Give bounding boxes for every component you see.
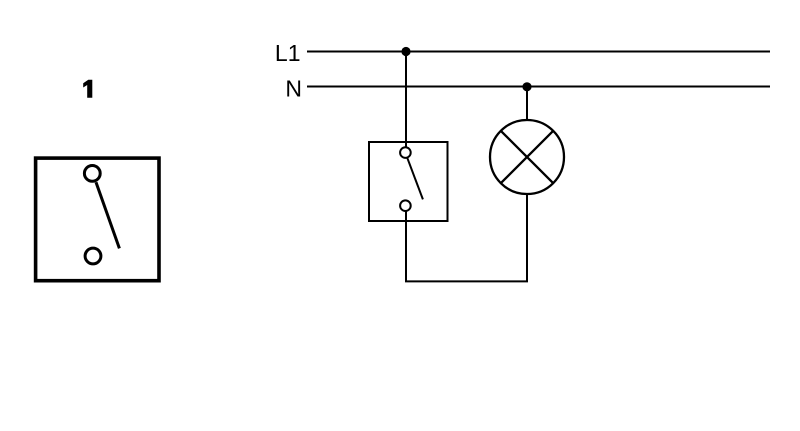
svg-text:N: N bbox=[285, 76, 302, 102]
svg-text:L1: L1 bbox=[275, 40, 301, 66]
